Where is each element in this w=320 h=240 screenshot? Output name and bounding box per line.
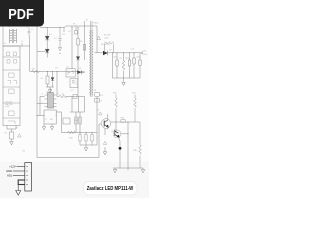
diode D5 bbox=[77, 70, 81, 74]
wire left frame drop bbox=[2, 27, 4, 46]
wire secondary out bbox=[95, 29, 104, 53]
ground left bbox=[42, 124, 45, 130]
wire q1 drain down bbox=[104, 128, 106, 135]
capacitor C12 bbox=[128, 53, 130, 78]
IC U1 bbox=[48, 93, 54, 109]
wire pin3 bbox=[13, 175, 25, 177]
wire top rail right bbox=[92, 26, 97, 29]
resistor R31 bbox=[134, 95, 137, 123]
svg-text:PDF: PDF bbox=[8, 7, 34, 23]
ground bbox=[58, 48, 61, 54]
resistor R38 bbox=[139, 122, 142, 168]
capacitor C14 bbox=[139, 53, 141, 78]
filter box bbox=[3, 46, 20, 126]
ground output bbox=[122, 78, 125, 86]
diode D4 bbox=[103, 51, 108, 55]
svg-text:ADJ: ADJ bbox=[7, 174, 13, 178]
transformer T1 core bbox=[90, 21, 92, 97]
wire pin1 bbox=[17, 166, 25, 168]
svg-text:R9 2W: R9 2W bbox=[104, 35, 110, 37]
diode D2 bbox=[45, 49, 49, 53]
wire vertical x84 bbox=[83, 21, 85, 60]
resistor R9 vertical above rail bbox=[105, 42, 114, 53]
capacitor C3 stub bbox=[63, 28, 65, 33]
wire pin4 bbox=[18, 179, 25, 181]
wire x97 down bbox=[96, 97, 98, 133]
title pill bbox=[84, 182, 138, 196]
wire to ground bbox=[17, 185, 19, 191]
wire gate row bbox=[111, 121, 140, 123]
fuse block bottom-left bbox=[7, 126, 16, 133]
wire U1 top pin bbox=[50, 89, 52, 93]
diode D1 bbox=[46, 28, 48, 37]
ground bottom left bbox=[113, 168, 116, 173]
resistor R36 bbox=[121, 120, 126, 123]
warning triangle bbox=[97, 36, 101, 39]
capacitor C1 bbox=[28, 28, 31, 36]
wire q2 out bbox=[121, 133, 128, 135]
svg-text:LED+: LED+ bbox=[143, 54, 149, 56]
IC U2 box bbox=[66, 69, 75, 77]
warning triangle q1 bbox=[99, 112, 102, 115]
capacitor C11 bbox=[116, 53, 118, 78]
wire pin2 bbox=[13, 170, 25, 172]
filter parts bbox=[7, 52, 17, 124]
svg-text:100k: 100k bbox=[104, 38, 108, 40]
PDF badge bbox=[0, 0, 44, 27]
connector CN2 bbox=[13, 163, 31, 196]
wire vertical x72 bbox=[71, 27, 73, 70]
svg-text:Zasilacz LED MP111-W: Zasilacz LED MP111-W bbox=[87, 186, 134, 192]
wire U1 left net bbox=[37, 97, 45, 116]
diode D3 bbox=[76, 57, 79, 60]
wire mid rail bbox=[30, 71, 85, 73]
transistor Q2 bbox=[115, 122, 117, 132]
fuse F1 bbox=[75, 26, 77, 31]
wire long vertical bbox=[36, 26, 38, 158]
ground connector bbox=[16, 191, 21, 196]
capacitor C13 bbox=[133, 53, 135, 78]
svg-text:D8 FR107: D8 FR107 bbox=[101, 44, 111, 46]
wire mid horizontal bbox=[37, 51, 45, 53]
wire Q2 emitter + junction bbox=[119, 138, 121, 169]
node +54V terminal bbox=[141, 52, 143, 54]
opto box bbox=[70, 79, 78, 88]
resistor R2 bbox=[77, 28, 79, 57]
optocoupler IC2 internals bbox=[72, 81, 77, 85]
transistor Q1 bbox=[101, 119, 111, 129]
transformer L1 choke bbox=[10, 29, 17, 43]
wire x57 down bbox=[56, 72, 58, 97]
wire output rail bbox=[108, 52, 141, 54]
svg-text:+12V: +12V bbox=[9, 165, 16, 169]
resistor R3 bbox=[32, 70, 40, 72]
gate wire long bbox=[37, 104, 102, 158]
svg-text:+54V: +54V bbox=[142, 51, 147, 53]
wire top rail bbox=[40, 26, 92, 28]
wire under box bbox=[56, 112, 62, 133]
resistor R10 bbox=[122, 53, 125, 78]
capacitor C2 bbox=[58, 28, 61, 48]
wire pin5 bbox=[18, 184, 25, 186]
transformer T1 primary winding bbox=[89, 30, 93, 95]
wire bottom rail bbox=[113, 167, 143, 169]
resistor trio bbox=[80, 133, 92, 135]
wires x72 x78 cluster bbox=[70, 72, 85, 133]
sub board box bbox=[44, 110, 56, 124]
ground bottom right bbox=[141, 168, 144, 173]
warning triangle g bbox=[103, 141, 106, 144]
ground right bbox=[50, 124, 53, 130]
aux parts bbox=[95, 93, 100, 103]
wire output bottom bbox=[113, 77, 141, 79]
resistor R5 bbox=[57, 95, 85, 97]
capacitor C10 bbox=[112, 53, 114, 78]
wire x128 bbox=[127, 122, 129, 170]
svg-text:0.5W: 0.5W bbox=[5, 106, 9, 108]
wire q1 collector bbox=[107, 114, 109, 129]
svg-text:GND: GND bbox=[6, 169, 12, 173]
capacitor C7 bbox=[63, 118, 70, 124]
wire choke bottom bbox=[3, 36, 30, 72]
resistor R30 bbox=[115, 95, 118, 123]
IC U2 internals bbox=[68, 70, 74, 75]
zener ZD1 branch bbox=[46, 72, 54, 93]
ground q1 bbox=[103, 147, 106, 155]
wire lower rail + resistor R28 bbox=[62, 132, 98, 134]
junction dots bbox=[36, 27, 134, 134]
